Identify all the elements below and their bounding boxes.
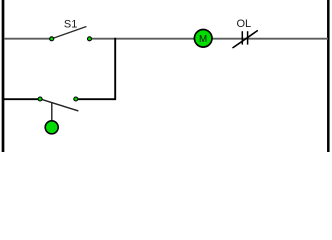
svg-text:OL: OL: [236, 18, 251, 30]
svg-text:S1: S1: [64, 18, 77, 30]
svg-text:M: M: [199, 34, 207, 45]
